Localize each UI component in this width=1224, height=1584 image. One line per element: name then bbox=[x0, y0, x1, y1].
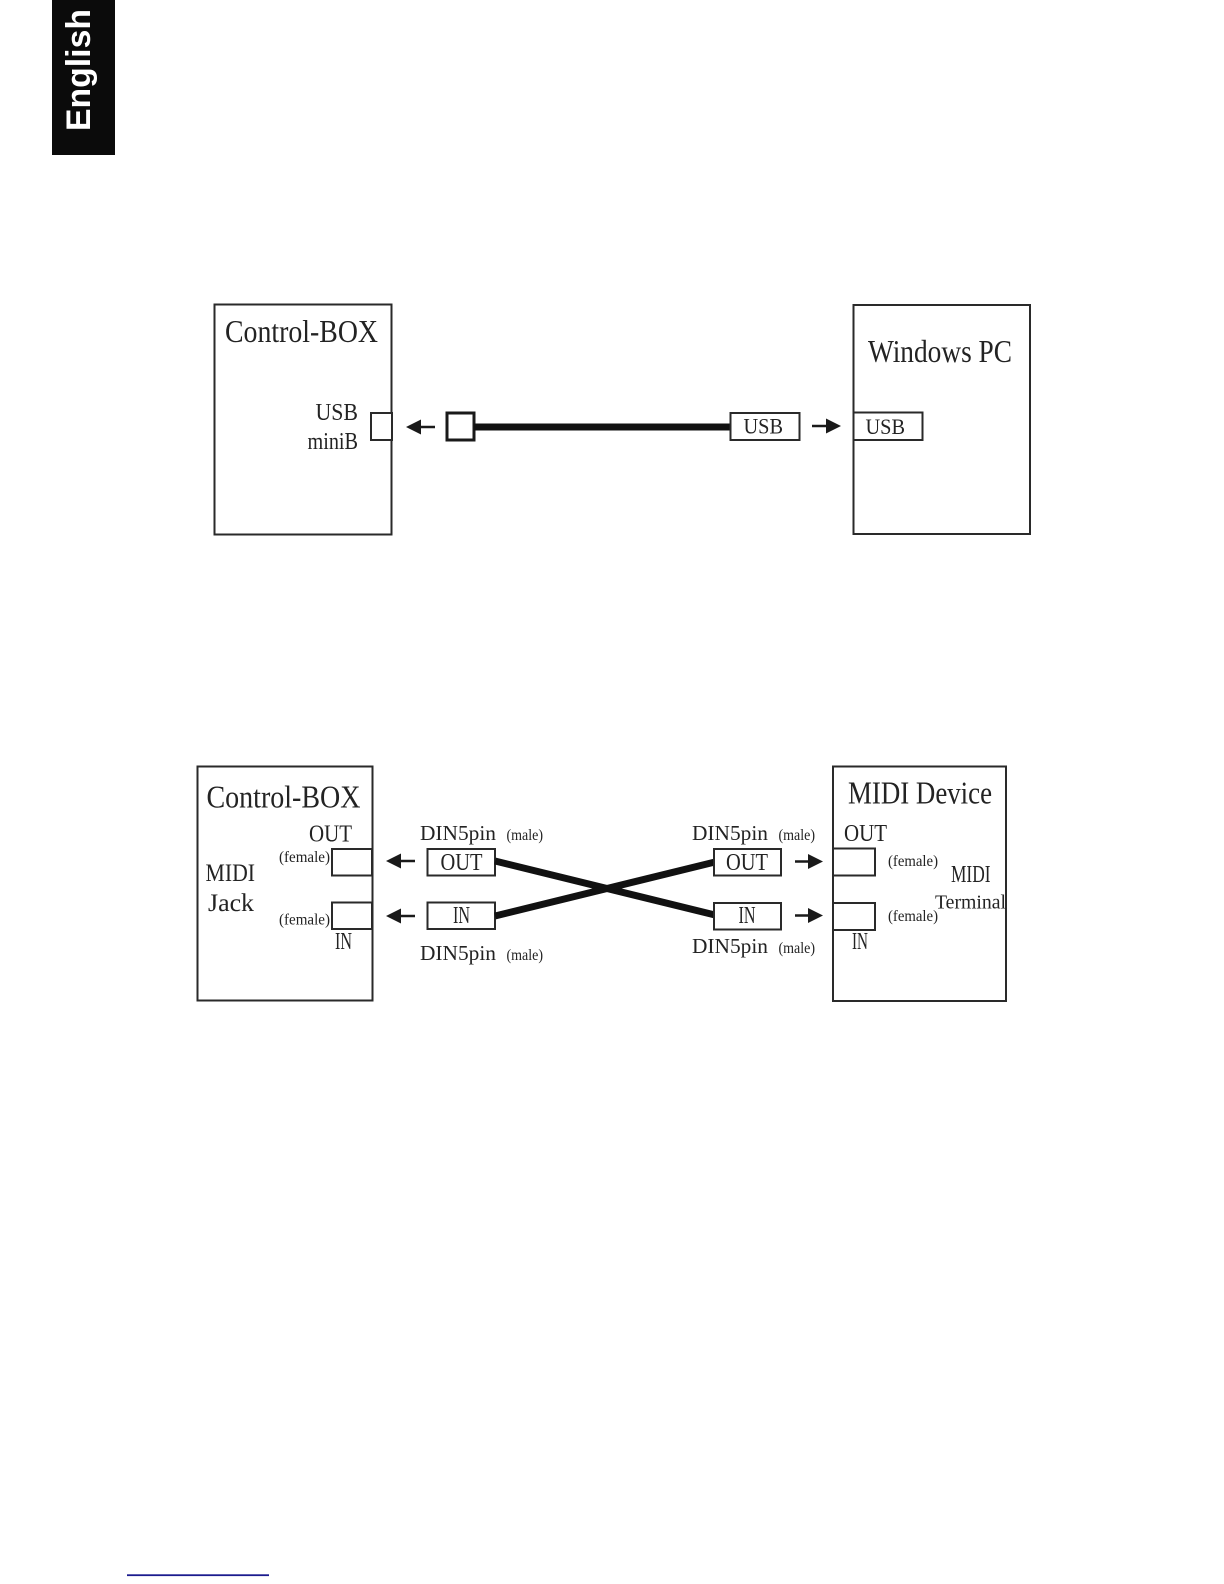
plug DIN5pin OUT (left) bbox=[428, 849, 496, 876]
svg-text:miniB: miniB bbox=[308, 429, 359, 455]
svg-text:Control-BOX: Control-BOX bbox=[207, 779, 361, 815]
svg-text:OUT: OUT bbox=[844, 821, 887, 847]
svg-text:English: English bbox=[60, 9, 98, 131]
svg-text:IN: IN bbox=[335, 929, 352, 955]
label DIN5pin male (right bottom) bbox=[692, 934, 815, 958]
label USB miniB bbox=[308, 400, 359, 455]
label IN (Control-BOX jack) bbox=[335, 929, 352, 955]
plug DIN5pin IN (left) bbox=[428, 903, 496, 930]
svg-text:Jack: Jack bbox=[208, 890, 255, 917]
wire MIDI cable IN-to-OUT bbox=[495, 862, 715, 916]
plug USB A connector bbox=[731, 413, 800, 440]
label DIN5pin male (left top) bbox=[420, 821, 543, 845]
arrow to Windows PC USB port bbox=[812, 419, 841, 434]
English tab bbox=[52, 0, 115, 155]
plug USB mini connector bbox=[447, 413, 474, 440]
svg-text:USB: USB bbox=[866, 414, 906, 439]
label female (OUT terminal) bbox=[888, 853, 938, 870]
svg-text:USB: USB bbox=[744, 414, 784, 439]
svg-text:IN: IN bbox=[453, 903, 470, 929]
arrow to Control-BOX IN jack bbox=[386, 909, 415, 924]
footer blue line bbox=[127, 1574, 269, 1576]
port MIDI OUT jack (female) bbox=[332, 849, 372, 876]
svg-text:(male): (male) bbox=[779, 827, 816, 844]
svg-text:MIDI Device: MIDI Device bbox=[848, 775, 992, 811]
svg-text:IN: IN bbox=[739, 903, 756, 929]
port USB (Windows PC) bbox=[854, 413, 923, 441]
svg-text:IN: IN bbox=[852, 929, 868, 955]
label DIN5pin male (right top) bbox=[692, 821, 815, 845]
svg-text:OUT: OUT bbox=[309, 822, 352, 848]
port USB miniB bbox=[371, 413, 392, 440]
port MIDI OUT terminal (female) bbox=[833, 849, 875, 876]
svg-text:(male): (male) bbox=[507, 827, 544, 844]
svg-text:Terminal: Terminal bbox=[935, 892, 1006, 914]
svg-text:(female): (female) bbox=[279, 849, 330, 866]
wire USB cable bbox=[474, 424, 731, 431]
svg-text:MIDI: MIDI bbox=[951, 862, 991, 888]
label MIDI Jack bbox=[206, 860, 256, 917]
svg-text:(male): (male) bbox=[779, 940, 816, 957]
label OUT (MIDI Device) bbox=[844, 821, 887, 847]
label OUT (Control-BOX jack) bbox=[309, 822, 352, 848]
port MIDI IN jack (female) bbox=[332, 903, 372, 930]
svg-text:OUT: OUT bbox=[726, 850, 768, 876]
svg-text:DIN5pin: DIN5pin bbox=[692, 821, 768, 845]
svg-text:Windows PC: Windows PC bbox=[868, 333, 1012, 369]
box Control-BOX (diagram 1) bbox=[215, 305, 392, 535]
label IN (MIDI Device) bbox=[852, 929, 868, 955]
box Control-BOX (diagram 2) bbox=[198, 767, 373, 1001]
svg-text:USB: USB bbox=[316, 400, 359, 426]
box MIDI Device bbox=[833, 767, 1006, 1002]
plug DIN5pin IN (right) bbox=[714, 903, 781, 930]
svg-text:(male): (male) bbox=[507, 947, 544, 964]
box Windows PC bbox=[854, 305, 1031, 534]
label female (OUT jack) bbox=[279, 849, 330, 866]
svg-text:DIN5pin: DIN5pin bbox=[692, 934, 768, 958]
arrow to MIDI Device OUT terminal bbox=[795, 854, 823, 869]
svg-text:(female): (female) bbox=[888, 908, 938, 925]
label female (IN terminal) bbox=[888, 908, 938, 925]
arrow to Control-BOX OUT jack bbox=[386, 854, 415, 869]
svg-text:DIN5pin: DIN5pin bbox=[420, 821, 496, 845]
svg-text:(female): (female) bbox=[279, 912, 330, 929]
svg-text:(female): (female) bbox=[888, 853, 938, 870]
plug DIN5pin OUT (right) bbox=[714, 849, 781, 876]
arrow to MIDI Device IN terminal bbox=[795, 908, 823, 923]
svg-text:OUT: OUT bbox=[441, 850, 483, 876]
wire MIDI cable OUT-to-IN bbox=[495, 861, 715, 915]
svg-text:Control-BOX: Control-BOX bbox=[225, 313, 378, 349]
port MIDI IN terminal (female) bbox=[833, 903, 875, 930]
svg-text:DIN5pin: DIN5pin bbox=[420, 941, 496, 965]
label MIDI Terminal bbox=[935, 862, 1006, 914]
arrow to Control-BOX USB port bbox=[406, 420, 435, 435]
label female (IN jack) bbox=[279, 912, 330, 929]
label DIN5pin male (left bottom) bbox=[420, 941, 543, 965]
svg-text:MIDI: MIDI bbox=[206, 860, 256, 887]
